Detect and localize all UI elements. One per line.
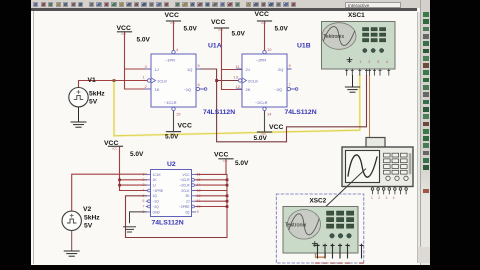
svg-text:1 2 3 4: 1 2 3 4 (371, 196, 397, 200)
svg-text:VCC: VCC (261, 22, 266, 25)
wire: V1 to ground (78, 107, 80, 122)
ground for XSC1 (345, 87, 359, 92)
svg-text:VCC: VCC (112, 148, 117, 151)
svg-text:8: 8 (143, 210, 145, 214)
svg-text:~1CLR: ~1CLR (164, 100, 177, 105)
svg-text:U1A: U1A (208, 43, 222, 50)
svg-text:4: 4 (143, 189, 145, 193)
svg-text:5.0V: 5.0V (232, 30, 246, 37)
svg-text:VCC: VCC (121, 33, 126, 36)
svg-text:U2: U2 (167, 161, 176, 168)
svg-text:10: 10 (197, 205, 201, 209)
svg-text:74LS112N: 74LS112N (203, 109, 235, 116)
svg-text:15: 15 (197, 178, 201, 182)
svg-text:1 2 3 4: 1 2 3 4 (322, 244, 353, 248)
label 74LS112N for U1A (203, 109, 235, 116)
svg-text:2CLK: 2CLK (181, 189, 190, 193)
svg-text:5.0V: 5.0V (165, 134, 179, 141)
svg-text:2Q: 2Q (185, 210, 190, 214)
wire: XSC2 channel 1 orange loop (316, 216, 326, 258)
wire: orange net from XSC1 ch D down behind scope panel (369, 76, 371, 148)
svg-text:2K: 2K (246, 87, 251, 92)
svg-text:1: 1 (143, 172, 145, 176)
wire: VCC rail to U2 1K 1J ~1PRE (120, 147, 147, 191)
svg-text:~1Q: ~1Q (184, 87, 192, 92)
svg-text:13: 13 (234, 74, 239, 79)
svg-text:5.0V: 5.0V (137, 36, 151, 43)
label V2 (83, 206, 100, 230)
svg-text:2J: 2J (186, 200, 190, 204)
svg-text:~2Q: ~2Q (153, 205, 160, 209)
XSC2 connector pins (315, 244, 364, 264)
junction: Q1 net at U1B clock branch (215, 79, 218, 82)
pin numbers U1A (143, 47, 201, 117)
svg-text:5.0V: 5.0V (184, 25, 198, 32)
power VCC symbol (U1A preset) (165, 12, 181, 25)
wire: V2 output to U2 1CLK (72, 174, 147, 211)
IC U2 74LS112N DIP package (146, 170, 195, 217)
ground below V1 (71, 122, 86, 127)
pin numbers U2 (143, 172, 201, 214)
svg-text:15: 15 (176, 112, 181, 117)
svg-text:~1Q: ~1Q (153, 200, 160, 204)
svg-text:1K: 1K (155, 87, 160, 92)
svg-text:V2: V2 (83, 206, 91, 213)
wire: U2 right VCC rail ties (196, 174, 227, 237)
svg-text:VCC: VCC (165, 12, 179, 19)
voltage source V2 5kHz 5V square wave (62, 211, 81, 230)
svg-text:1CLK: 1CLK (153, 173, 162, 177)
svg-text:~1PRE: ~1PRE (153, 189, 164, 193)
label 5.0V (U1B preset) (275, 25, 289, 32)
svg-text:2: 2 (143, 178, 145, 182)
selection box around XSC2 (276, 194, 364, 263)
svg-text:VCC: VCC (218, 29, 223, 32)
svg-text:~1CLR: ~1CLR (179, 178, 190, 182)
svg-text:VCC: VCC (269, 124, 283, 131)
svg-text:11: 11 (197, 199, 201, 203)
power VCC symbol (U1A J/K) (117, 25, 132, 36)
voltage source V1 5kHz 5V square wave (69, 88, 88, 107)
power VCC symbol (U1B clear) (258, 124, 284, 136)
junction: yellow net tap on clock wire (113, 79, 116, 82)
oscilloscope XSC2 (Tektronix icon) (283, 207, 358, 254)
svg-text:14: 14 (267, 112, 272, 117)
label 5.0V (U1B J/K) (232, 30, 246, 37)
svg-text:6: 6 (198, 82, 201, 87)
junction: U2 right rail taps (226, 179, 229, 208)
svg-text:1J: 1J (155, 67, 159, 72)
pin numbers U1B (234, 47, 292, 117)
svg-text:5V: 5V (89, 99, 98, 106)
label U1B (297, 43, 311, 50)
svg-text:5kHz: 5kHz (84, 215, 100, 222)
wire: XSC1 ground lead (352, 76, 354, 87)
svg-text:~2CLR: ~2CLR (179, 184, 190, 188)
svg-text:1Q: 1Q (153, 194, 158, 198)
svg-text:5.0V: 5.0V (254, 135, 268, 142)
svg-text:Tektronix: Tektronix (323, 34, 344, 40)
svg-text:11: 11 (236, 64, 241, 69)
svg-text:1CLK: 1CLK (157, 78, 167, 83)
JK flip-flop U1B (74LS112N) (237, 50, 298, 110)
oscilloscope front panel picture (Tektronix TDS) (342, 138, 413, 201)
svg-text:~2Q: ~2Q (275, 87, 283, 92)
label 74LS112N for U2 (152, 219, 184, 226)
label 5.0V (U1A preset) (184, 25, 198, 32)
junction: U2 left VCC rail taps (118, 179, 121, 187)
ground for U2 GND pin (124, 227, 136, 232)
svg-text:12: 12 (197, 194, 201, 198)
oscilloscope XSC1 (Tektronix icon) (322, 22, 396, 76)
label U2 (167, 161, 176, 168)
svg-text:1J: 1J (153, 184, 157, 188)
wire: U1A ~1PR to VCC (173, 21, 175, 52)
svg-text:2Q: 2Q (278, 67, 283, 72)
label XSC1 (348, 12, 365, 19)
svg-text:~1PR: ~1PR (165, 58, 175, 63)
svg-text:Tektronix: Tektronix (285, 223, 307, 229)
svg-text:6: 6 (143, 199, 145, 203)
svg-text:5V: 5V (84, 223, 93, 230)
svg-text:V1: V1 (88, 77, 96, 84)
label 74LS112N for U1B (285, 109, 317, 116)
svg-text:12: 12 (236, 84, 241, 89)
svg-text:XSC1: XSC1 (348, 12, 365, 19)
ground below V2 (64, 251, 79, 256)
svg-text:VCC: VCC (170, 22, 175, 25)
label 5.0V (U2 right) (235, 160, 249, 167)
svg-text:VCC: VCC (183, 173, 191, 177)
svg-text:VCC: VCC (117, 25, 131, 32)
wire: U2 VCC pin from 5V supply (225, 159, 227, 175)
svg-text:VCC: VCC (214, 151, 228, 158)
svg-text:13: 13 (197, 189, 201, 193)
svg-text:GND: GND (153, 210, 161, 214)
svg-text:~2CLR: ~2CLR (255, 100, 268, 105)
svg-text:3: 3 (145, 64, 148, 69)
svg-text:VCC: VCC (104, 140, 118, 147)
label 5.0V (U2 left) (130, 151, 144, 158)
label 5.0V (U1A clear) (165, 134, 179, 141)
svg-text:16: 16 (197, 172, 201, 176)
label V1 (88, 77, 106, 106)
wire: V1 output to U1A clock (79, 81, 152, 89)
wire: U2 GND pin to ground (130, 212, 147, 223)
svg-text:2: 2 (145, 84, 148, 89)
svg-text:5kHz: 5kHz (89, 91, 105, 98)
wire: yellow highlighted net (V1 clock to XSC1 ch A) (114, 76, 360, 136)
svg-text:5: 5 (143, 194, 145, 198)
svg-text:5.0V: 5.0V (235, 160, 249, 167)
power VCC symbol (U1B J/K) (211, 19, 229, 32)
JK flip-flop U1A (74LS112N) (146, 50, 207, 110)
wire: VCC rail to U1B 2J and 2K (222, 28, 243, 90)
svg-text:XSC2: XSC2 (310, 197, 327, 204)
svg-text:~2PRE: ~2PRE (179, 205, 190, 209)
svg-text:1: 1 (143, 74, 146, 79)
svg-text:5.0V: 5.0V (275, 25, 289, 32)
svg-text:5: 5 (198, 63, 201, 68)
wire: U2 1Q loop to bottom bus (126, 196, 228, 238)
wire: V2 to ground (71, 231, 73, 252)
wire: U1B ~2CLR to VCC (264, 110, 266, 133)
svg-text:1Q: 1Q (187, 67, 192, 72)
svg-text:3: 3 (143, 183, 145, 187)
svg-text:1 2 3 4: 1 2 3 4 (360, 60, 391, 64)
svg-text:VCC: VCC (255, 11, 269, 18)
svg-text:5.0V: 5.0V (130, 151, 144, 158)
svg-text:~2PR: ~2PR (256, 58, 266, 63)
svg-text:7: 7 (143, 205, 145, 209)
power VCC symbol (U1A clear) (167, 123, 192, 136)
svg-text:VCC: VCC (223, 160, 228, 163)
svg-text:14: 14 (197, 183, 201, 187)
svg-text:74LS112N: 74LS112N (285, 109, 317, 116)
svg-text:7: 7 (289, 82, 292, 87)
svg-text:U1B: U1B (297, 43, 311, 50)
wire: U1A ~1CLR to VCC (173, 110, 175, 132)
label 5.0V (U1A J/K) (137, 36, 151, 43)
svg-text:2J: 2J (246, 67, 250, 72)
pointer line from XSC2 to scope panel (321, 169, 366, 212)
label U1A (208, 43, 222, 50)
svg-text:4: 4 (176, 47, 179, 52)
svg-text:VCC: VCC (211, 19, 225, 26)
svg-text:74LS112N: 74LS112N (152, 219, 184, 226)
wire: VCC rail to U1A 1J and 1K (125, 32, 152, 89)
svg-text:VCC: VCC (178, 123, 192, 130)
label 5.0V (U1B clear) (254, 135, 268, 142)
wire: net Q1 from U1A 1Q to U1B clock and XSC1 ch B (199, 69, 367, 142)
power VCC symbol (U1B preset) (255, 11, 272, 25)
svg-text:9: 9 (197, 210, 199, 214)
power VCC symbol (U2 left) (104, 140, 123, 151)
power VCC symbol (U2 right) (214, 151, 233, 163)
svg-text:10: 10 (267, 47, 272, 52)
svg-text:2CLK: 2CLK (248, 78, 258, 83)
label XSC2 (310, 197, 327, 204)
svg-text:9: 9 (289, 63, 292, 68)
wire: U1B ~2PR to VCC (264, 21, 266, 52)
